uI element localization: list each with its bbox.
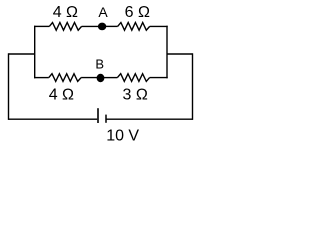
wire: bottom left (rail to battery) bbox=[9, 118, 98, 120]
svg-text:A: A bbox=[98, 4, 108, 20]
wire: left connector to outer rail bbox=[9, 53, 35, 55]
resistor R2 6Ω (top-right) bbox=[118, 23, 150, 31]
battery V1 positive plate (long) bbox=[97, 108, 99, 123]
svg-text:B: B bbox=[95, 56, 104, 71]
resistor R4 3Ω (bottom-right) bbox=[117, 74, 149, 82]
wire: left outer rail bbox=[8, 53, 10, 120]
resistor R1 4Ω (top-left) bbox=[49, 23, 81, 31]
wire: node A to R2 bbox=[105, 25, 118, 27]
wire: right outer rail bbox=[192, 53, 194, 120]
wire: R2 to right stub bbox=[150, 25, 168, 27]
wire: node B to R4 bbox=[104, 77, 118, 79]
wire: right connector to outer rail bbox=[167, 53, 193, 55]
resistor R3 4Ω (bottom-left) bbox=[49, 74, 81, 82]
node B junction dot bbox=[97, 74, 105, 82]
wire: top branch lead-in bbox=[34, 25, 49, 27]
svg-text:6 Ω: 6 Ω bbox=[125, 4, 150, 21]
svg-text:4 Ω: 4 Ω bbox=[49, 87, 74, 104]
svg-text:10 V: 10 V bbox=[106, 128, 139, 145]
wire: right inner stub (top branch to middle branch) bbox=[166, 26, 168, 79]
wire: R1 to node A bbox=[82, 25, 99, 27]
battery V1 negative plate (short) bbox=[105, 115, 107, 123]
wire: R4 to right stub bbox=[150, 77, 168, 79]
wire: R3 to node B bbox=[81, 77, 97, 79]
wire: bottom right (battery to rail) bbox=[106, 118, 193, 120]
node A junction dot bbox=[98, 23, 106, 31]
wire: left inner stub (top branch to middle branch) bbox=[34, 26, 36, 79]
wire: middle branch lead-in bbox=[34, 77, 49, 79]
svg-text:4 Ω: 4 Ω bbox=[53, 4, 78, 21]
svg-text:3 Ω: 3 Ω bbox=[123, 87, 148, 104]
